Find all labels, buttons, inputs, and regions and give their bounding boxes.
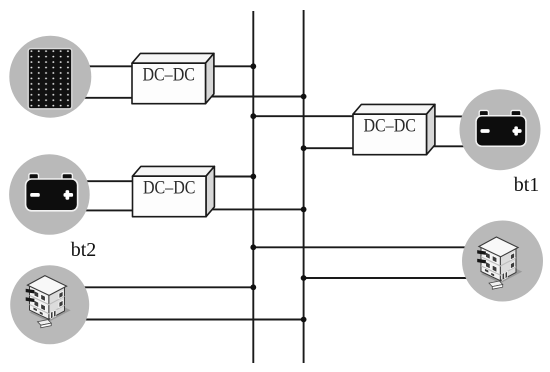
- junction dot bus1/U2 top: [250, 174, 256, 180]
- converter U2 (bt2 DC-DC): [133, 166, 215, 216]
- junction dot bus2/U1 bottom: [301, 94, 307, 100]
- svg-text:bt2: bt2: [71, 239, 97, 261]
- wire: converter U3 to battery bt1 (top): [426, 115, 500, 117]
- battery bt2 icon: [26, 174, 78, 211]
- wire: converter U2 to bus1 (top): [205, 176, 253, 178]
- wire: solar to converter U1 (bottom): [62, 97, 133, 99]
- wire: bus2 to converter U3 (bottom): [304, 147, 354, 149]
- bus 2 (right DC bus): [303, 10, 305, 363]
- wire: battery bt2 to converter U2 (top): [62, 180, 133, 182]
- wire: load building 1 to bus1 (top): [52, 286, 253, 288]
- junction dot bus2/load1 bottom: [301, 317, 307, 323]
- wire: bus1 to converter U3 (top): [253, 115, 354, 117]
- wire: battery bt2 to converter U2 (bottom): [62, 209, 133, 211]
- junction dot bus1/load1 top: [250, 284, 256, 290]
- junction dot bus1/load2 top: [250, 244, 256, 250]
- wire: bus1 to load building 2 (top): [253, 246, 500, 248]
- battery bt1 icon: [476, 110, 526, 146]
- load building 2 icon: [477, 237, 522, 289]
- wire: converter U1 to bus2 (bottom): [205, 96, 304, 98]
- junction dot bus2/U2 bottom: [301, 207, 307, 213]
- wire: bus2 to load building 2 (bottom): [304, 277, 500, 279]
- load building 1 icon: [26, 276, 71, 328]
- converter U1 (PV DC-DC): [132, 53, 214, 103]
- converter U3 (bt1 DC-DC): [353, 104, 435, 154]
- wire: load building 1 to bus2 (bottom): [52, 319, 304, 321]
- junction dot bus1/U3 top: [250, 113, 256, 119]
- battery bt2 circle: [9, 154, 90, 235]
- wire: converter U1 to bus1 (top): [205, 65, 253, 67]
- junction dot bus2/U3 bottom: [301, 145, 307, 151]
- bus 1 (left DC bus): [252, 11, 254, 363]
- load building 1 circle: [10, 265, 89, 344]
- load building 2 circle: [462, 221, 543, 302]
- wire: solar to converter U1 (top): [62, 65, 133, 67]
- junction dot bus1/U1 top: [250, 63, 256, 69]
- wire: converter U2 to bus2 (bottom): [205, 208, 304, 210]
- junction dot bus2/load2 bottom: [301, 275, 307, 281]
- battery bt1 circle: [460, 89, 541, 170]
- PV source circle: [9, 36, 91, 118]
- svg-text:bt1: bt1: [514, 174, 540, 196]
- wire: converter U3 to battery bt1 (bottom): [426, 145, 500, 147]
- solar panel: [28, 49, 72, 109]
